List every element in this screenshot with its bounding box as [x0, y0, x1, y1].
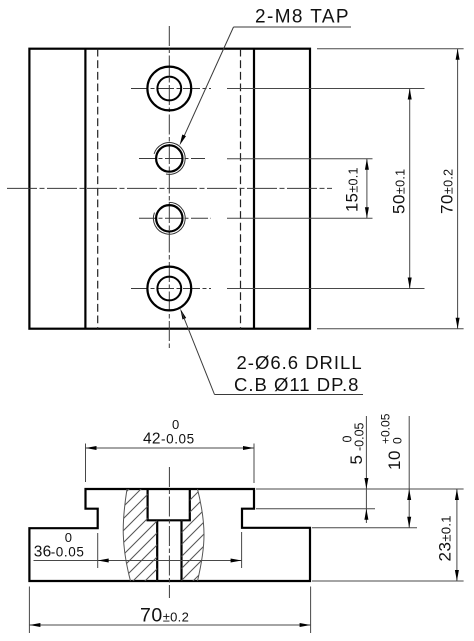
- hole 1 counterbore outer circle: [147, 67, 191, 111]
- svg-text:C.B Ø11 DP.8: C.B Ø11 DP.8: [234, 374, 359, 395]
- extension line 42 right: [253, 444, 255, 484]
- svg-text:-0.05: -0.05: [353, 422, 367, 451]
- extension line hole2 center: [227, 158, 373, 160]
- dimension line 15: [366, 159, 368, 219]
- hole 1 drill inner circle: [157, 77, 181, 101]
- arrow 15 bottom: [365, 207, 369, 218]
- arrow 50 top: [408, 89, 412, 100]
- arrow 42 right: [243, 446, 254, 450]
- dimension text 50 +/-0.1: [390, 169, 409, 214]
- section view body outline: [29, 489, 310, 581]
- dimension text 15 +/-0.1: [344, 167, 362, 212]
- leader arrow drill: [180, 309, 186, 320]
- arrow 10 bottom: [407, 517, 411, 528]
- main horizontal centerline: [7, 187, 332, 189]
- svg-text:23±0.1: 23±0.1: [436, 515, 455, 561]
- extension line notch step: [256, 508, 375, 510]
- dimension line 36: [34, 560, 242, 562]
- hole 3 M8 tap drill circle: [156, 205, 182, 231]
- dimension line 23: [456, 489, 458, 581]
- dimension line 5: [365, 416, 367, 523]
- top view right hidden line (notch): [240, 49, 242, 329]
- arrow 50 bottom: [408, 278, 412, 289]
- extension line 36 right: [241, 532, 243, 568]
- top view left step edge (visible line): [84, 49, 86, 329]
- extension line hole1 center: [227, 88, 425, 90]
- svg-text:42: 42: [143, 431, 161, 448]
- extension line boss top face: [256, 488, 464, 490]
- leader line M8: [182, 27, 234, 142]
- svg-text:70±0.2: 70±0.2: [438, 169, 457, 214]
- dimension line 42: [86, 447, 255, 449]
- svg-text:2-Ø6.6 DRILL: 2-Ø6.6 DRILL: [237, 352, 363, 373]
- arrow 70 side bottom: [456, 318, 460, 329]
- extension line 36 left: [97, 533, 99, 568]
- dimension line 10: [408, 416, 410, 528]
- extension line body top face: [312, 527, 417, 529]
- leader arrow M8: [180, 135, 186, 146]
- hole 3 centerline: [139, 217, 211, 219]
- arrow 70 bottom right: [300, 623, 311, 627]
- svg-text:0: 0: [341, 436, 355, 443]
- arrow 23 bottom: [455, 570, 459, 581]
- svg-text:15±0.1: 15±0.1: [344, 167, 362, 212]
- hatching right of hole: [6, 470, 328, 600]
- break line right (wavy): [198, 489, 205, 581]
- extension line top edge: [317, 48, 464, 50]
- extension line 70 bottom right: [310, 587, 312, 634]
- dimension text 23 +/-0.1: [436, 515, 455, 561]
- top view right step edge (visible line): [253, 49, 255, 329]
- hole 2 centerline: [139, 158, 205, 160]
- arrow 36 left: [98, 559, 109, 563]
- drill hole left wall: [156, 520, 158, 581]
- svg-text:10: 10: [385, 450, 404, 470]
- extension line bottom edge: [317, 328, 464, 330]
- arrow 70 bottom left: [29, 623, 40, 627]
- svg-text:2-M8 TAP: 2-M8 TAP: [255, 7, 350, 28]
- hole 1 centerline: [131, 88, 211, 90]
- extension line hole4 center: [227, 288, 425, 290]
- drill hole right wall: [180, 520, 182, 581]
- vertical centerline through holes: [168, 26, 170, 350]
- hatching left of hole: [6, 470, 328, 600]
- extension line body bottom face: [312, 580, 464, 582]
- top view outer outline (70x70 plate): [29, 49, 310, 329]
- svg-text:-0.05: -0.05: [161, 432, 195, 447]
- arrow 10 top: [407, 489, 411, 500]
- arrow 5 lower (outside): [364, 509, 368, 520]
- leader underline drill: [215, 394, 364, 396]
- hole 4 drill inner circle: [157, 277, 181, 301]
- dimension line 70 bottom: [29, 624, 310, 626]
- counterbore left wall: [147, 489, 149, 520]
- hole 2 M8 tap drill circle: [156, 145, 182, 171]
- extension line 42 left: [85, 444, 87, 483]
- svg-text:0: 0: [391, 437, 405, 444]
- counterbore bottom: [147, 519, 191, 521]
- break line left (wavy): [123, 489, 130, 581]
- leader underline M8: [234, 26, 352, 28]
- arrow 5 upper (outside): [364, 478, 368, 489]
- leader line drill: [182, 313, 215, 395]
- arrow 42 left: [86, 446, 97, 450]
- top view left hidden line (notch): [97, 49, 99, 329]
- svg-text:36: 36: [34, 543, 52, 560]
- extension line hole3 center: [227, 217, 373, 219]
- svg-text:0: 0: [172, 417, 179, 432]
- dimension text 5 with tolerance: [341, 422, 367, 464]
- arrow 15 top: [365, 159, 369, 170]
- extension line 70 bottom left: [28, 587, 30, 634]
- dimension line 50: [409, 89, 411, 289]
- dimension text 70 +/-0.2 side: [438, 169, 457, 214]
- svg-text:0: 0: [65, 530, 72, 545]
- hole 4 centerline: [131, 288, 211, 290]
- section vertical centerline: [168, 467, 170, 598]
- svg-text:70±0.2: 70±0.2: [140, 605, 189, 627]
- hole 3 thread arc: [153, 202, 185, 234]
- svg-text:-0.05: -0.05: [51, 544, 85, 559]
- arrow 23 top: [455, 489, 459, 500]
- counterbore right wall: [189, 489, 191, 520]
- arrow 70 side top: [456, 49, 460, 60]
- dimension line 70 side: [457, 49, 459, 329]
- hole 4 counterbore outer circle: [147, 267, 191, 311]
- svg-text:50±0.1: 50±0.1: [390, 169, 409, 214]
- arrow 36 right: [231, 559, 242, 563]
- dimension text 10 with tolerance: [379, 413, 405, 470]
- hole 2 thread arc: [154, 143, 185, 175]
- svg-text:5: 5: [347, 455, 366, 464]
